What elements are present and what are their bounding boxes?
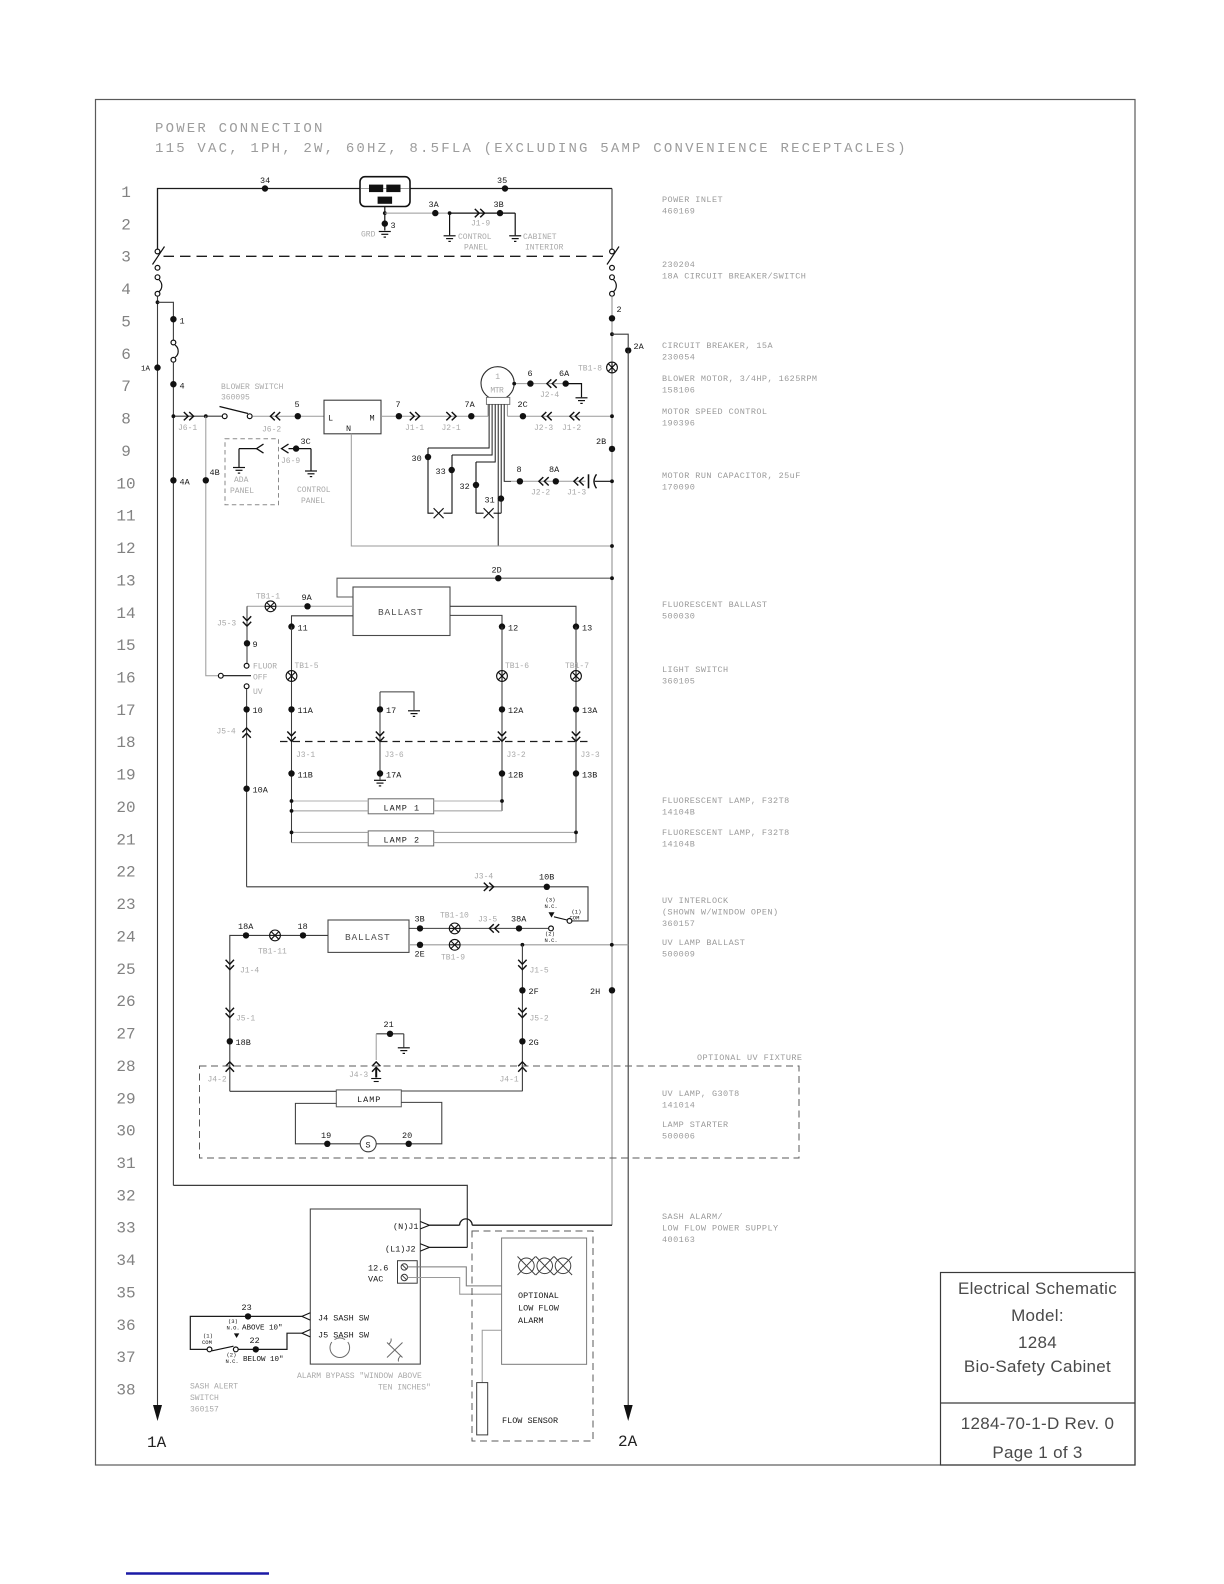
node 4 <box>170 381 176 387</box>
svg-text:J4-3: J4-3 <box>349 1071 368 1080</box>
connector J3-3 <box>572 732 580 742</box>
svg-text:20: 20 <box>116 799 135 817</box>
svg-text:J5-1: J5-1 <box>236 1015 255 1024</box>
svg-text:11A: 11A <box>298 706 314 716</box>
node 18B <box>227 1038 233 1044</box>
svg-text:6: 6 <box>121 346 131 364</box>
node 3B uv <box>417 925 423 931</box>
svg-text:J5-3: J5-3 <box>217 620 236 629</box>
svg-text:38A: 38A <box>511 915 527 925</box>
svg-text:PANEL: PANEL <box>301 497 325 506</box>
svg-text:4A: 4A <box>180 478 191 488</box>
svg-text:22: 22 <box>116 864 135 882</box>
page border <box>96 100 1136 1466</box>
svg-text:2E: 2E <box>415 950 425 960</box>
svg-text:N.C.: N.C. <box>545 937 558 944</box>
svg-text:CONTROL: CONTROL <box>458 233 492 242</box>
optional UV fixture dashed box <box>200 1066 800 1158</box>
svg-text:1284: 1284 <box>1018 1333 1057 1352</box>
svg-text:SWITCH: SWITCH <box>190 1394 219 1403</box>
svg-text:31: 31 <box>485 496 495 506</box>
svg-text:13: 13 <box>582 624 592 634</box>
wire 2D row 13 <box>337 578 612 597</box>
svg-text:INTERIOR: INTERIOR <box>525 244 564 253</box>
node 2E <box>417 942 423 948</box>
svg-text:7A: 7A <box>465 400 476 410</box>
connector J2-3 <box>542 412 552 420</box>
svg-text:J2-4: J2-4 <box>540 391 559 400</box>
wire 21 to J4-3 <box>375 1034 377 1060</box>
svg-text:Bio-Safety Cabinet: Bio-Safety Cabinet <box>964 1357 1111 1376</box>
svg-text:170090: 170090 <box>662 483 695 493</box>
node 2F <box>519 987 525 993</box>
fuse TB1-10 <box>449 923 460 934</box>
svg-text:(N)J1: (N)J1 <box>393 1222 419 1232</box>
connector J3-6 <box>376 732 384 742</box>
svg-text:7: 7 <box>121 378 131 396</box>
wire 3B row <box>409 927 548 929</box>
connector J1-5 <box>518 960 526 970</box>
node 30 <box>425 454 431 460</box>
node 35 <box>502 185 508 191</box>
svg-text:17A: 17A <box>386 771 402 781</box>
wire 8 capacitor row <box>511 480 586 482</box>
blower switch <box>220 407 253 419</box>
svg-text:2C: 2C <box>518 400 528 410</box>
svg-text:SASH ALARM/: SASH ALARM/ <box>662 1212 723 1222</box>
svg-text:10A: 10A <box>253 786 269 796</box>
svg-text:PANEL: PANEL <box>230 487 254 496</box>
svg-text:2G: 2G <box>529 1038 539 1048</box>
svg-text:22: 22 <box>250 1336 260 1346</box>
svg-text:30: 30 <box>412 454 422 464</box>
circuit breaker/switch left <box>153 247 165 297</box>
svg-text:OPTIONAL UV FIXTURE: OPTIONAL UV FIXTURE <box>697 1053 802 1063</box>
svg-text:J2-3: J2-3 <box>534 424 553 433</box>
svg-text:19: 19 <box>321 1131 331 1141</box>
wire J4-1 to lamp <box>401 1090 522 1092</box>
rail 2A vertical <box>627 350 629 1405</box>
svg-text:BALLAST: BALLAST <box>378 607 424 618</box>
connector J4-1 <box>518 1062 526 1072</box>
wire N return row 12 <box>351 434 612 546</box>
svg-text:33: 33 <box>436 467 446 477</box>
svg-text:2H: 2H <box>590 987 600 997</box>
svg-text:35: 35 <box>497 176 507 186</box>
connector J6-1 <box>184 412 194 420</box>
svg-text:8A: 8A <box>549 465 560 475</box>
svg-text:190396: 190396 <box>662 419 695 429</box>
svg-text:1A: 1A <box>141 366 151 374</box>
arrow 2A bottom <box>624 1405 633 1421</box>
svg-text:J3-4: J3-4 <box>474 873 493 882</box>
junction rail 2 <box>610 943 614 947</box>
svg-text:13A: 13A <box>582 706 598 716</box>
node 23 <box>245 1313 251 1319</box>
node 33 <box>449 467 455 473</box>
node 6A <box>563 380 569 386</box>
lamp starter loop <box>295 1102 441 1143</box>
svg-text:230204: 230204 <box>662 260 695 270</box>
svg-text:2A: 2A <box>618 1433 638 1451</box>
svg-text:25: 25 <box>116 961 135 979</box>
svg-text:400163: 400163 <box>662 1235 695 1245</box>
svg-text:OFF: OFF <box>253 674 268 683</box>
svg-text:J2-2: J2-2 <box>531 489 550 498</box>
svg-text:J3-2: J3-2 <box>507 751 526 760</box>
node 10B <box>544 884 550 890</box>
node 2D <box>495 575 501 581</box>
winding U2 thermal <box>476 462 501 518</box>
svg-text:2A: 2A <box>634 342 645 352</box>
svg-text:230054: 230054 <box>662 353 695 363</box>
svg-text:MTR: MTR <box>490 387 504 396</box>
svg-text:J4-2: J4-2 <box>208 1076 227 1085</box>
connector J3-5 <box>489 924 499 932</box>
svg-text:35: 35 <box>116 1285 135 1303</box>
connector J4-2 <box>226 1062 234 1072</box>
node 13 <box>573 623 579 629</box>
connector J6-2 <box>270 412 280 420</box>
node 2G <box>519 1038 525 1044</box>
rail 1A left vertical <box>157 296 159 1405</box>
node 12A <box>499 706 505 712</box>
svg-text:CIRCUIT BREAKER, 15A: CIRCUIT BREAKER, 15A <box>662 341 773 351</box>
connector J1-3 <box>574 477 584 485</box>
svg-text:COM: COM <box>202 1339 212 1346</box>
node 18A <box>243 932 249 938</box>
svg-text:GRD: GRD <box>361 231 376 240</box>
node 11 <box>288 623 294 629</box>
light switch FLUOR/OFF/UV <box>218 663 251 688</box>
svg-text:S: S <box>366 1140 371 1150</box>
svg-text:POWER CONNECTION: POWER CONNECTION <box>155 121 325 137</box>
svg-text:1: 1 <box>121 184 131 202</box>
svg-text:5: 5 <box>121 314 131 332</box>
svg-text:21: 21 <box>384 1020 394 1030</box>
wire VAC bottom to alarm <box>408 1278 502 1295</box>
ground GRD <box>379 232 391 238</box>
fuse TB1-5 <box>286 671 297 682</box>
svg-text:J6-9: J6-9 <box>281 457 300 466</box>
svg-text:Electrical Schematic: Electrical Schematic <box>958 1279 1117 1298</box>
svg-text:Page 1 of 3: Page 1 of 3 <box>992 1443 1082 1462</box>
svg-text:11: 11 <box>116 508 135 526</box>
svg-text:360095: 360095 <box>221 394 250 403</box>
svg-text:MOTOR SPEED CONTROL: MOTOR SPEED CONTROL <box>662 407 767 417</box>
svg-text:500006: 500006 <box>662 1132 695 1142</box>
svg-text:10: 10 <box>116 475 135 493</box>
svg-text:27: 27 <box>116 1026 135 1044</box>
svg-text:J4 SASH SW: J4 SASH SW <box>318 1314 370 1324</box>
wire sash switch loop <box>190 1316 302 1349</box>
svg-text:FLUORESCENT LAMP, F32T8: FLUORESCENT LAMP, F32T8 <box>662 828 790 838</box>
wire inlet ground stub <box>384 207 386 231</box>
UV lamp ballast box <box>328 920 409 952</box>
svg-text:12.6: 12.6 <box>368 1264 388 1274</box>
ADA panel dashed box <box>225 439 279 505</box>
svg-text:TB1-9: TB1-9 <box>441 954 465 963</box>
svg-text:N.C.: N.C. <box>226 1358 239 1365</box>
blue revision underline bottom left <box>126 1572 269 1575</box>
UV interlock switch <box>549 912 572 931</box>
wire row 32 <box>173 1185 467 1247</box>
svg-text:FLUOR: FLUOR <box>253 663 277 672</box>
svg-text:9: 9 <box>253 640 258 650</box>
connector J1-1 <box>410 412 420 420</box>
svg-text:21: 21 <box>116 831 135 849</box>
svg-text:4: 4 <box>121 281 131 299</box>
wire 12 vertical <box>501 627 503 811</box>
junction <box>156 300 160 304</box>
svg-text:N.O.: N.O. <box>227 1325 240 1332</box>
node 5 <box>295 413 301 419</box>
svg-text:2: 2 <box>121 216 131 234</box>
wire 3A to 3B cabinet <box>450 212 516 214</box>
svg-text:LIGHT SWITCH: LIGHT SWITCH <box>662 665 729 675</box>
low flow alarm dashed box <box>472 1231 593 1441</box>
svg-text:12: 12 <box>508 624 518 634</box>
wire J6-1 row <box>173 415 223 417</box>
svg-text:UV INTERLOCK: UV INTERLOCK <box>662 896 729 906</box>
node 4B <box>203 477 209 483</box>
node 17A <box>377 770 383 776</box>
wire 22 to J5 <box>239 1333 302 1349</box>
wire switch to node 5 <box>252 415 324 417</box>
svg-text:TB1-11: TB1-11 <box>258 948 287 957</box>
title block <box>941 1273 1136 1466</box>
node 32 <box>473 482 479 488</box>
svg-text:1284-70-1-D Rev. 0: 1284-70-1-D Rev. 0 <box>961 1414 1114 1433</box>
svg-text:J5 SASH SW: J5 SASH SW <box>318 1330 370 1340</box>
lamp 1 box <box>368 799 434 814</box>
wire ballast to 13 <box>450 606 576 624</box>
node 10 <box>243 706 249 712</box>
svg-text:(L1)J2: (L1)J2 <box>385 1245 416 1255</box>
sash box fan icon <box>387 1339 403 1362</box>
node 7A <box>468 413 474 419</box>
node 7 <box>396 413 402 419</box>
svg-text:CONTROL: CONTROL <box>297 486 331 495</box>
svg-text:14: 14 <box>116 605 135 623</box>
junction J1-5 branch <box>521 943 525 947</box>
svg-text:7: 7 <box>396 400 401 410</box>
node 8 <box>517 478 523 484</box>
fuse TB1-9 <box>449 939 460 950</box>
node 4A <box>170 477 176 483</box>
arrow 1A bottom <box>153 1405 162 1421</box>
connector J1-2 <box>570 412 580 420</box>
svg-text:LAMP 1: LAMP 1 <box>384 803 421 813</box>
svg-text:30: 30 <box>116 1123 135 1141</box>
node 2C <box>520 413 526 419</box>
node 2B <box>609 446 615 452</box>
connector J5-4 <box>242 728 250 738</box>
node 19 <box>324 1141 330 1147</box>
svg-text:Model:: Model: <box>1011 1306 1064 1325</box>
svg-text:16: 16 <box>116 670 135 688</box>
node 10A <box>243 786 249 792</box>
lamp 2 pin wires <box>292 831 369 833</box>
connector J5-1 <box>226 1008 234 1018</box>
node 18 <box>300 932 306 938</box>
connector J3-4 <box>484 883 494 891</box>
svg-text:UV: UV <box>253 688 263 697</box>
wire ballast to 11 <box>292 616 354 624</box>
ground ADA panel <box>238 449 240 467</box>
winding U1 thermal <box>428 448 452 518</box>
wire ballast to 12 <box>450 615 502 624</box>
svg-text:ALARM BYPASS "WINDOW ABOVE: ALARM BYPASS "WINDOW ABOVE <box>297 1372 422 1381</box>
svg-text:5: 5 <box>295 400 300 410</box>
wire branch to 2A <box>612 334 628 347</box>
svg-text:TB1-8: TB1-8 <box>578 365 602 374</box>
wire L1 J2 <box>429 1246 467 1248</box>
node 21 ground stub <box>376 1033 404 1035</box>
svg-text:LOW FLOW POWER SUPPLY: LOW FLOW POWER SUPPLY <box>662 1224 779 1234</box>
ground 3C control panel <box>310 449 312 471</box>
svg-text:23: 23 <box>242 1303 252 1313</box>
fuse TB1-8 <box>607 362 618 373</box>
motor terminal verticals <box>487 404 489 416</box>
wire motor to node 6 <box>514 383 581 385</box>
svg-text:1A: 1A <box>147 1434 167 1452</box>
connector J2-4 <box>547 379 557 387</box>
node 2A <box>625 347 631 353</box>
svg-text:FLUORESCENT LAMP, F32T8: FLUORESCENT LAMP, F32T8 <box>662 796 790 806</box>
svg-text:J1-2: J1-2 <box>562 424 581 433</box>
svg-text:13B: 13B <box>582 771 597 781</box>
ground 17A <box>374 780 386 786</box>
svg-text:L: L <box>328 414 333 424</box>
svg-text:38: 38 <box>116 1382 135 1400</box>
svg-text:3A: 3A <box>429 200 440 210</box>
svg-text:115 VAC, 1PH, 2W, 60HZ, 8.5FLA: 115 VAC, 1PH, 2W, 60HZ, 8.5FLA (EXCLUDIN… <box>155 141 908 157</box>
svg-text:J5-2: J5-2 <box>530 1015 549 1024</box>
svg-text:J6-1: J6-1 <box>178 424 197 433</box>
svg-text:12B: 12B <box>508 771 523 781</box>
svg-text:158106: 158106 <box>662 386 695 396</box>
svg-text:26: 26 <box>116 993 135 1011</box>
node 34 <box>262 185 268 191</box>
svg-text:10B: 10B <box>539 873 554 883</box>
wire VAC top to alarm <box>408 1267 502 1286</box>
power inlet connector <box>360 177 410 207</box>
svg-text:20: 20 <box>402 1131 412 1141</box>
svg-text:23: 23 <box>116 896 135 914</box>
svg-text:15: 15 <box>116 637 135 655</box>
junction 4B branch <box>204 414 208 418</box>
node 17 <box>377 706 383 712</box>
node 11A <box>288 706 294 712</box>
node 12B <box>499 770 505 776</box>
sash alert switch <box>207 1346 238 1352</box>
svg-text:12A: 12A <box>508 706 524 716</box>
wire branch to breaker 15A <box>158 302 174 340</box>
svg-text:LAMP 2: LAMP 2 <box>384 835 421 845</box>
svg-text:J2-1: J2-1 <box>442 424 461 433</box>
12.6 VAC terminal block <box>398 1261 418 1284</box>
junction 2A branch <box>610 332 614 336</box>
svg-text:(SHOWN W/WINDOW OPEN): (SHOWN W/WINDOW OPEN) <box>662 908 779 918</box>
svg-text:J3-6: J3-6 <box>385 751 404 760</box>
node 12 <box>499 623 505 629</box>
svg-text:J3-5: J3-5 <box>478 916 497 925</box>
svg-text:360157: 360157 <box>662 919 695 929</box>
svg-text:3C: 3C <box>301 437 311 447</box>
svg-text:J1-4: J1-4 <box>240 967 259 976</box>
svg-text:2F: 2F <box>529 987 539 997</box>
wire alarm to flow sensor <box>482 1330 501 1382</box>
svg-text:TB1-1: TB1-1 <box>256 593 280 602</box>
node 1 <box>170 316 176 322</box>
ground 6A <box>566 384 582 398</box>
svg-text:24: 24 <box>116 928 135 946</box>
wire 9A ballast feed <box>247 605 353 607</box>
wire 2C <box>507 415 612 417</box>
svg-text:J1-3: J1-3 <box>567 489 586 498</box>
svg-text:9: 9 <box>121 443 131 461</box>
svg-text:36: 36 <box>116 1317 135 1335</box>
connector J3-1 <box>287 732 295 742</box>
wire N J1 with hop <box>429 1224 459 1226</box>
fuse TB1-11 <box>270 930 281 941</box>
svg-text:17: 17 <box>386 706 396 716</box>
wire 13 vertical <box>575 627 577 843</box>
svg-text:18: 18 <box>116 734 135 752</box>
node 6 <box>527 380 533 386</box>
svg-text:1: 1 <box>495 373 500 382</box>
svg-text:BLOWER SWITCH: BLOWER SWITCH <box>221 383 284 392</box>
node 31 <box>498 495 504 501</box>
svg-text:34: 34 <box>116 1252 135 1270</box>
svg-text:11B: 11B <box>298 771 313 781</box>
motor run capacitor <box>589 474 613 488</box>
svg-text:9A: 9A <box>302 593 313 603</box>
svg-text:BELOW 10": BELOW 10" <box>243 1356 284 1364</box>
connector J2-1 <box>446 412 456 420</box>
motor speed control box <box>324 400 381 434</box>
junction <box>383 211 387 215</box>
flow sensor <box>477 1383 488 1435</box>
svg-text:UV LAMP BALLAST: UV LAMP BALLAST <box>662 938 745 948</box>
svg-text:18B: 18B <box>236 1038 251 1048</box>
wire light switch drop <box>246 606 248 663</box>
svg-text:141014: 141014 <box>662 1101 695 1111</box>
svg-text:11: 11 <box>298 624 308 634</box>
wire M to motor <box>381 415 488 417</box>
connector J4-3 with ground <box>372 1062 380 1072</box>
svg-text:19: 19 <box>116 767 135 785</box>
wire UV to 10 <box>246 689 248 887</box>
svg-text:COM: COM <box>570 915 580 922</box>
svg-text:4B: 4B <box>210 468 220 478</box>
svg-text:J5-4: J5-4 <box>217 728 236 737</box>
connector J5-3 <box>243 616 251 626</box>
ground control panel <box>449 213 451 235</box>
svg-text:ALARM: ALARM <box>518 1316 544 1326</box>
svg-text:18A: 18A <box>238 922 254 932</box>
wire 18A feed <box>230 935 328 1091</box>
UV lamp box <box>336 1090 401 1107</box>
svg-text:13: 13 <box>116 572 135 590</box>
svg-text:14104B: 14104B <box>662 840 695 850</box>
node 2H <box>609 987 615 993</box>
node 2 <box>609 315 615 321</box>
svg-text:LOW FLOW: LOW FLOW <box>518 1304 560 1314</box>
svg-text:6: 6 <box>528 369 533 379</box>
junction rail <box>610 414 614 418</box>
